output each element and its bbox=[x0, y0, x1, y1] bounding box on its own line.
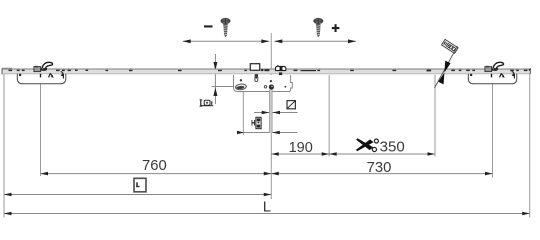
flag label bbox=[441, 39, 458, 53]
vertical dimension backset line bbox=[214, 54, 216, 104]
backset icon A bbox=[200, 100, 214, 106]
760 arrow left bbox=[41, 172, 49, 176]
scissors icon bbox=[372, 139, 378, 152]
direction mark bbox=[49, 73, 53, 77]
case hole 1 bbox=[240, 79, 242, 81]
row D arrow left bbox=[4, 212, 12, 216]
screw right bbox=[313, 18, 323, 38]
faceplate latch block bbox=[250, 64, 259, 71]
dim row B line 760/730 bbox=[41, 173, 493, 175]
tilt hook bbox=[42, 62, 53, 70]
cut marker bowtie bbox=[438, 61, 451, 85]
extension line 190 bbox=[328, 75, 330, 157]
rod thickness dim line bbox=[254, 112, 298, 114]
keeper strap bbox=[17, 74, 66, 84]
row2 arrow left-pointing bbox=[272, 131, 280, 135]
left keeper assembly bbox=[17, 62, 66, 84]
minus sign bbox=[204, 25, 213, 27]
spindle axis horizontal line bbox=[212, 86, 237, 88]
latch lower tab bbox=[255, 74, 258, 77]
760 arrow right bbox=[264, 172, 272, 176]
extension line right keeper bbox=[492, 84, 494, 178]
rod dim arrow left bbox=[262, 111, 270, 115]
top adjust dim right span bbox=[274, 40, 356, 42]
case hole 2 bbox=[270, 80, 272, 82]
plus sign bbox=[332, 24, 340, 32]
pivot disc bbox=[269, 84, 274, 89]
extension line right rail end bbox=[529, 73, 531, 218]
case hole 4 bbox=[284, 86, 286, 88]
drive rod bbox=[269, 90, 272, 134]
svg-text:L: L bbox=[263, 199, 271, 216]
row C arrow right bbox=[264, 193, 272, 197]
dim row C line bbox=[4, 194, 271, 196]
row C arrow left bbox=[4, 193, 12, 197]
right keeper assembly bbox=[468, 62, 517, 84]
row D arrow right bbox=[522, 212, 530, 216]
190 arrow left bbox=[271, 152, 279, 156]
730 arrow right bbox=[485, 172, 493, 176]
case hole 3 bbox=[264, 86, 267, 89]
cam lower part bbox=[279, 72, 282, 75]
svg-text:760: 760 bbox=[142, 158, 167, 174]
350 arrow right bbox=[428, 152, 436, 156]
extension line 350 end bbox=[434, 75, 436, 157]
extension line spindle axis bbox=[242, 90, 244, 135]
dim row D line L bbox=[4, 213, 530, 215]
svg-text:350: 350 bbox=[380, 139, 405, 156]
lock case body bbox=[234, 75, 293, 92]
190 arrow right bbox=[322, 152, 330, 156]
top adjust dim left span bbox=[183, 40, 270, 42]
window handle icon bbox=[134, 178, 146, 192]
backset dim line row2 bbox=[237, 132, 298, 134]
arrow up at spindle axis bbox=[213, 88, 217, 97]
strap feet bbox=[19, 74, 21, 76]
case slot bbox=[255, 76, 258, 81]
350 arrow left bbox=[329, 152, 337, 156]
flag leader line bbox=[435, 46, 458, 88]
small f mark bbox=[61, 72, 64, 79]
row2 arrow right-pointing bbox=[237, 131, 244, 135]
extension line left edge bbox=[3, 72, 5, 218]
square spindle icon bbox=[287, 101, 295, 109]
hook block bbox=[34, 67, 41, 72]
screw left bbox=[221, 18, 231, 38]
rail bbox=[2, 68, 530, 74]
svg-text:190: 190 bbox=[289, 140, 313, 156]
extension line left keeper bbox=[40, 84, 42, 176]
dim row A line 190/350 bbox=[271, 153, 435, 155]
spindle oval bbox=[235, 84, 246, 91]
rail right end tip bbox=[529, 69, 531, 71]
extension line center bbox=[270, 33, 272, 199]
arrow down at rail top bbox=[213, 62, 217, 71]
keeper tick bbox=[40, 74, 41, 78]
cam piece bbox=[276, 66, 286, 70]
rail screw-hole dashes bbox=[9, 69, 528, 71]
offset icon B bbox=[252, 117, 261, 128]
svg-text:730: 730 bbox=[367, 160, 392, 176]
rod dim arrow right bbox=[273, 111, 281, 115]
730 arrow left bbox=[271, 172, 279, 176]
